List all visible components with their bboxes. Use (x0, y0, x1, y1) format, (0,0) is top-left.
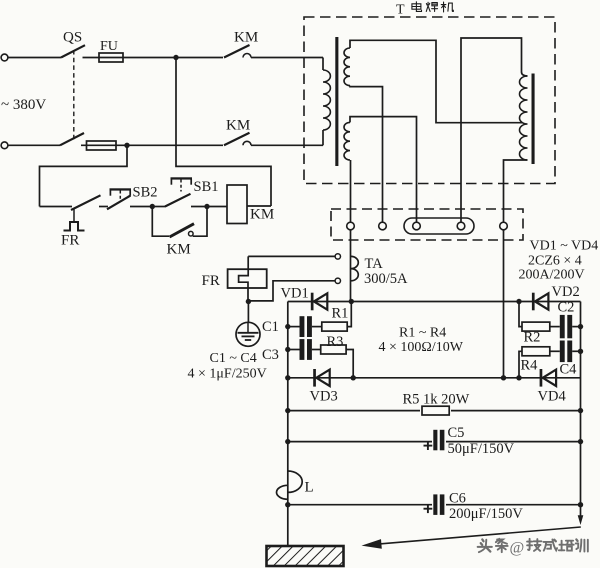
svg-text:KM: KM (167, 242, 191, 258)
svg-text:200μF/150V: 200μF/150V (449, 506, 523, 522)
svg-text:R2: R2 (524, 330, 541, 346)
svg-text:VD1: VD1 (281, 286, 309, 302)
svg-text:200A/200V: 200A/200V (519, 268, 585, 283)
svg-text:C2: C2 (558, 300, 575, 316)
svg-text:C5: C5 (448, 425, 465, 441)
svg-text:R1 ~ R4: R1 ~ R4 (399, 326, 446, 341)
svg-text:SB2: SB2 (133, 185, 158, 201)
svg-text:VD3: VD3 (310, 389, 338, 405)
svg-text:KM: KM (226, 118, 250, 134)
svg-text:VD1 ~ VD4: VD1 ~ VD4 (530, 239, 599, 254)
svg-text:KM: KM (234, 30, 258, 46)
svg-text:QS: QS (63, 30, 82, 46)
svg-text:L: L (305, 480, 314, 496)
svg-text:VD4: VD4 (538, 389, 567, 405)
svg-text:C4: C4 (560, 362, 578, 378)
svg-text:FR: FR (61, 233, 79, 249)
svg-text:50μF/150V: 50μF/150V (448, 441, 515, 457)
svg-text:C1 ~ C4: C1 ~ C4 (210, 351, 257, 366)
svg-text:C1: C1 (262, 319, 279, 335)
svg-text:4 × 100Ω/10W: 4 × 100Ω/10W (379, 340, 464, 355)
svg-text:R3: R3 (327, 334, 344, 350)
svg-text:2CZ6 × 4: 2CZ6 × 4 (528, 254, 582, 269)
svg-text:FU: FU (100, 39, 118, 54)
svg-text:4 × 1μF/250V: 4 × 1μF/250V (188, 367, 267, 382)
svg-text:SB1: SB1 (194, 179, 219, 195)
svg-text:C6: C6 (449, 490, 466, 506)
svg-text:~ 380V: ~ 380V (1, 97, 46, 113)
svg-text:C3: C3 (262, 347, 279, 363)
svg-text:VD2: VD2 (552, 284, 580, 300)
svg-text:300/5A: 300/5A (364, 271, 408, 287)
svg-text:FR: FR (202, 273, 220, 289)
svg-text:TA: TA (365, 256, 384, 272)
svg-text:T: T (396, 3, 405, 18)
svg-text:R5 1k 20W: R5 1k 20W (403, 392, 470, 408)
svg-text:KM: KM (250, 207, 274, 223)
svg-text:@: @ (510, 540, 525, 557)
svg-text:R1: R1 (332, 306, 349, 322)
svg-text:R4: R4 (521, 358, 539, 374)
